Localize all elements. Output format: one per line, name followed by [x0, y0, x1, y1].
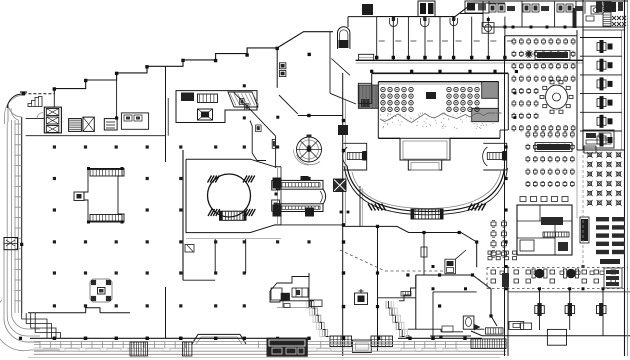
entry vestibule octagon — [192, 334, 246, 344]
west-of-core tables — [491, 221, 507, 258]
rotunda circle and stage — [208, 174, 251, 221]
southeast dark service block — [600, 259, 622, 288]
rotunda corner hatch marks — [208, 176, 256, 217]
top service rooms walls — [356, 3, 583, 63]
columns along south wall — [53, 337, 467, 340]
wall vertical x245 upper — [246, 48, 248, 54]
left facade top corner arcs — [5, 92, 27, 124]
storage row above core — [520, 197, 568, 202]
south dining tables row — [491, 269, 616, 287]
dining tables mid grid — [526, 132, 574, 187]
tables patch southeast of room — [488, 251, 517, 260]
left edge column upper — [20, 243, 23, 246]
stair S1 hatched — [69, 119, 82, 132]
wall x116 vertical — [116, 80, 118, 119]
terrace checkered planters — [330, 336, 393, 347]
dining tables north grid — [512, 39, 575, 131]
east bar counters — [596, 217, 625, 254]
dashed diagonal walk — [340, 250, 385, 271]
east escalator dark bar — [581, 219, 588, 241]
kitchen block walls — [460, 0, 628, 150]
east elevator core — [517, 205, 572, 255]
wall x165 upper segment — [165, 66, 167, 162]
east flower tables cluster — [587, 152, 622, 206]
facade panel rects — [44, 349, 457, 351]
escalator bank center — [273, 176, 326, 217]
left edge open box — [4, 238, 18, 250]
wall x165 lower segment — [165, 287, 167, 338]
curved ramp west — [343, 143, 367, 170]
columns south central — [376, 225, 493, 339]
entry terrace stepped outline — [300, 275, 416, 337]
rooftop equipment blocks — [362, 1, 489, 17]
column grid dots atrium — [53, 145, 311, 340]
facade stair hatch blocks — [130, 342, 192, 356]
southeast room walls — [430, 292, 630, 345]
ballroom walls — [372, 73, 509, 138]
columns south dining — [432, 265, 605, 290]
restroom fixtures top — [390, 17, 495, 33]
ballroom west escalator hatch — [358, 83, 378, 108]
arc center stage bar — [411, 209, 444, 220]
round dining arrangement — [540, 81, 573, 114]
curved ramp east — [483, 143, 507, 170]
southwest entry rooms — [270, 273, 322, 308]
corridor walls upper-left — [26, 113, 166, 136]
east facade hatch block — [471, 339, 506, 349]
rotunda lobby walls — [233, 92, 276, 169]
ballroom east hatched zones — [426, 82, 498, 122]
buffet serpentine line — [380, 113, 502, 123]
bottom-left rounded corner arcs — [0, 300, 60, 351]
wall below steps — [276, 48, 278, 88]
door closets on wall — [279, 63, 286, 69]
columns north corridor — [370, 70, 518, 119]
elevator bank E1 — [44, 107, 61, 133]
southeast partition walls — [504, 36, 630, 356]
left facade mullion lines — [4, 117, 22, 318]
east corridor dashed wall — [577, 150, 583, 270]
east wing bays and booths — [580, 38, 622, 147]
column glyphs southeast — [535, 303, 606, 316]
rotunda side tables — [272, 181, 280, 212]
lobby north wall — [243, 84, 343, 119]
elevator E2 — [198, 109, 213, 120]
diagonal escalator upper — [228, 92, 259, 107]
bottom facade band lines — [28, 338, 506, 357]
columns on stepped boundary — [22, 47, 311, 96]
ballroom round table groups — [381, 87, 479, 111]
left edge column lower — [19, 337, 22, 340]
south atrium wall — [28, 308, 130, 313]
columns under arc — [340, 211, 343, 214]
northeast stair strip — [603, 2, 611, 26]
banquet table north — [535, 51, 570, 60]
left facade tick rungs — [15, 124, 22, 301]
north central walls — [330, 32, 356, 104]
stair zigzag at northwest corner — [28, 97, 42, 107]
rotunda room walls — [183, 150, 281, 280]
arched entry feature — [338, 27, 350, 49]
wall x360 under arc — [359, 186, 361, 226]
buffet stipple texture — [380, 112, 497, 128]
terrace center pad — [353, 340, 372, 353]
stage apron steps — [400, 138, 450, 170]
vestibule below arch — [359, 54, 374, 60]
expansion joint corridor wall — [338, 73, 348, 356]
south central room walls — [343, 226, 477, 351]
east wing bay end wall — [577, 130, 625, 153]
dashed sight line — [475, 276, 491, 288]
banquet table mid — [535, 143, 572, 152]
compass rose floor medallion — [294, 135, 322, 166]
arc tick clusters — [368, 204, 486, 211]
ballroom south room — [378, 275, 498, 332]
escalator pair west — [74, 167, 124, 224]
column at mech room corner — [115, 116, 118, 119]
mech room with louvers — [104, 119, 117, 130]
grand arc double line — [344, 166, 508, 215]
sunburst glyph — [525, 50, 533, 58]
east boundary walls — [577, 0, 628, 356]
wall x168 short — [167, 98, 169, 136]
planter fountain feature — [90, 279, 112, 302]
service rooms pair — [121, 113, 148, 129]
wall y225 center — [275, 224, 343, 226]
south dining zone dashed border — [487, 268, 628, 289]
kiosk dark block — [334, 179, 347, 192]
room block with pantry — [176, 91, 257, 123]
partitions below rotunda — [186, 239, 281, 273]
outer boundary stepped wall — [23, 17, 376, 94]
entry monument glyph — [355, 289, 368, 305]
wall x54 vertical — [53, 94, 55, 107]
facade mullion ticks — [40, 342, 456, 349]
main entrance dark block — [267, 338, 308, 357]
zigzag stair southwest — [22, 313, 61, 338]
shaft room with cross brace — [83, 117, 94, 131]
northeast corner rooms — [583, 1, 626, 31]
glyph cluster room corner — [445, 259, 456, 274]
